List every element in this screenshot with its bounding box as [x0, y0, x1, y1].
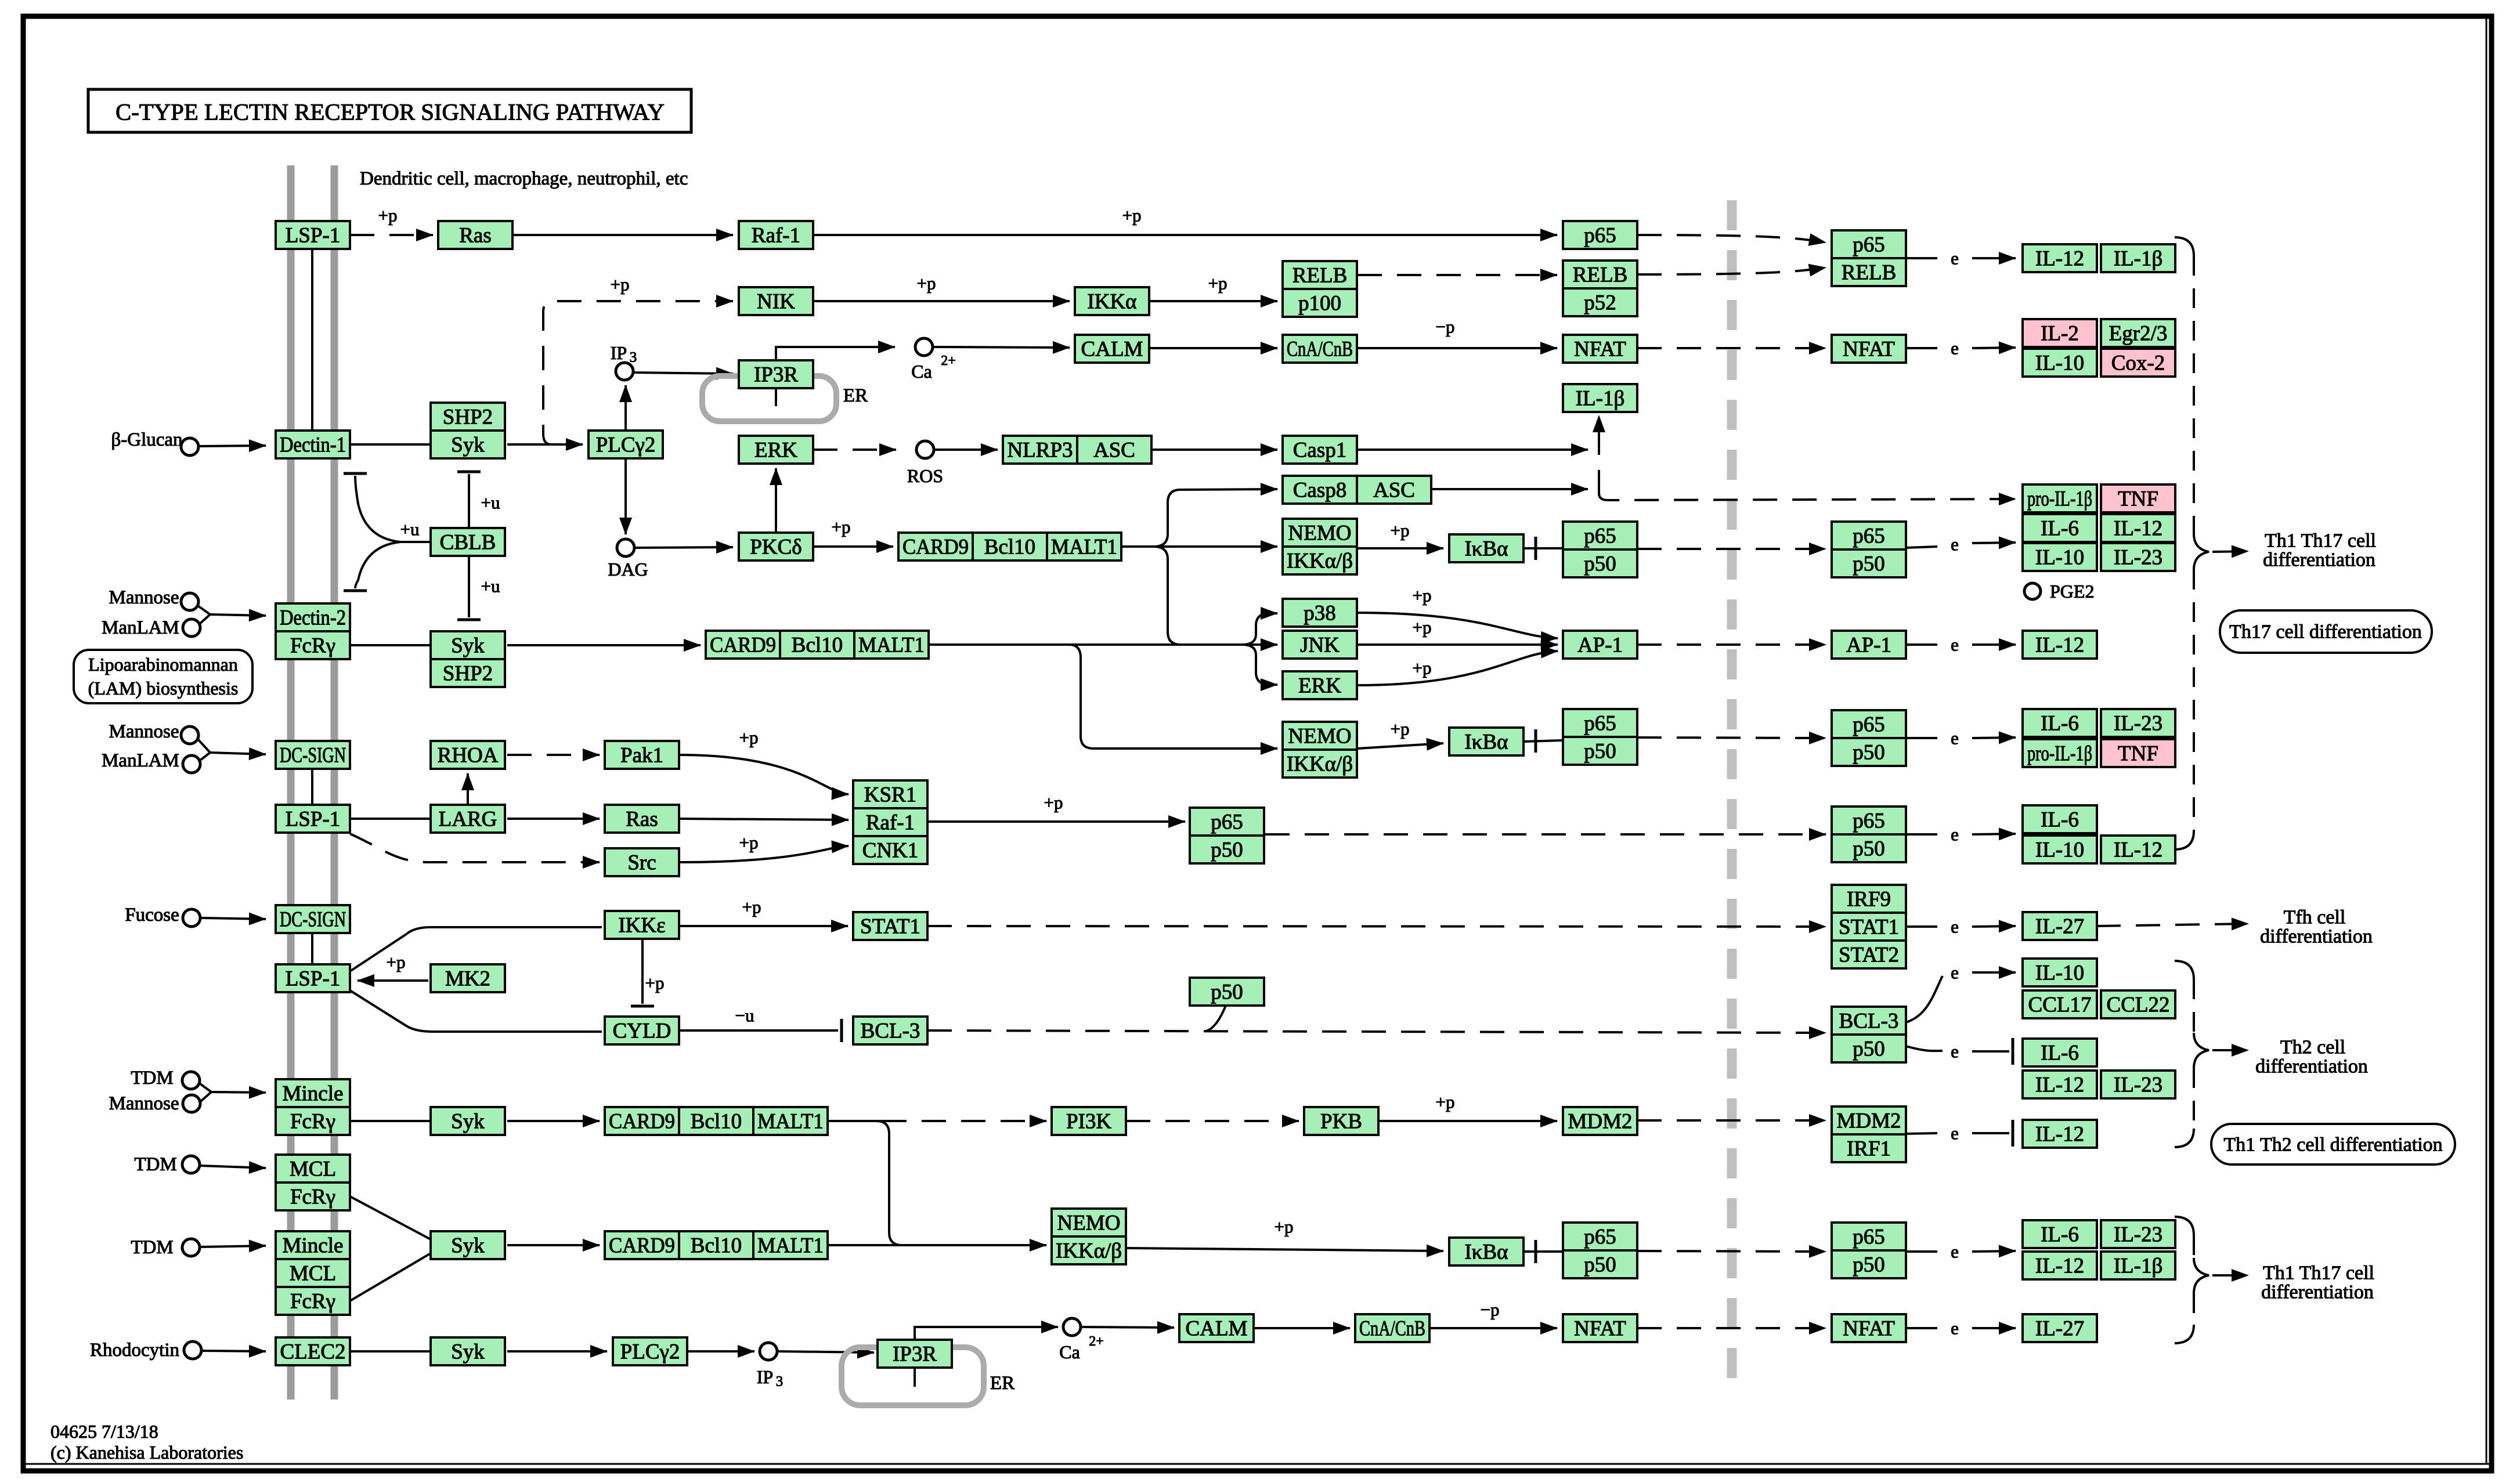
svg-text:p65: p65: [1853, 233, 1885, 257]
wire MALT1 r1 out: [1121, 545, 1154, 548]
wire LSP-1b to LARG: [350, 818, 429, 820]
wire e to IL-27: [1972, 926, 2016, 927]
svg-text:Mannose: Mannose: [109, 587, 179, 608]
svg-text:CALM: CALM: [1081, 338, 1143, 361]
svg-text:IL-12: IL-12: [2035, 1254, 2084, 1278]
svg-text:BCL-3: BCL-3: [861, 1019, 920, 1043]
wire IP3b to IP3R b: [778, 1351, 874, 1353]
wire e to cytokines F: [1972, 834, 2016, 834]
wire n0 to e: [1906, 257, 1937, 259]
wire PKB to MDM2: [1378, 1120, 1557, 1122]
svg-text:IL-10: IL-10: [2035, 546, 2084, 570]
box FcRγ b: [276, 1107, 350, 1135]
box IKKα/β 2: [1283, 750, 1357, 778]
svg-text:IL-6: IL-6: [2041, 517, 2079, 541]
box ERK a: [739, 436, 813, 464]
wire Casp8 to junction: [1431, 488, 1588, 490]
wire CnA/CnB b to NFAT c: [1431, 1327, 1557, 1329]
svg-text:Dectin-2: Dectin-2: [280, 606, 346, 630]
box RELB c: [1283, 261, 1357, 289]
wire n5 to e: [1906, 1250, 1937, 1253]
tee IKKε-CYLD: [631, 1005, 654, 1008]
wire AP-1n to e: [1906, 643, 1937, 646]
box Syk c: [431, 1107, 505, 1135]
wire p65/p50 1 to nucleus: [1637, 548, 1826, 550]
box p65 n2: [1832, 710, 1906, 738]
box Bcl10 r2: [780, 631, 854, 659]
wire NIK to IKKα: [813, 300, 1070, 302]
box STAT1 a: [853, 912, 927, 940]
svg-text:CARD9: CARD9: [710, 634, 776, 657]
wire IKKε to STAT1: [679, 925, 848, 927]
box IL-1β a: [2101, 244, 2175, 272]
svg-text:IκBα: IκBα: [1464, 731, 1508, 754]
svg-text:+p: +p: [1275, 1217, 1294, 1237]
wire IP3R b channel tick: [914, 1368, 916, 1387]
svg-text:p100: p100: [1298, 292, 1341, 316]
svg-text:ASC: ASC: [1373, 479, 1415, 502]
box CnA/CnB b: [1355, 1314, 1429, 1342]
wire DAG to PKCδ: [635, 547, 733, 548]
svg-text:Ca: Ca: [911, 361, 932, 382]
box pro-IL-1β c1: [2023, 484, 2097, 512]
box Syk d: [431, 1231, 505, 1259]
svg-text:+p: +p: [739, 833, 759, 853]
box MCL b: [276, 1259, 350, 1287]
svg-text:Mincle: Mincle: [283, 1234, 344, 1258]
tee MDM2 IL-12: [2012, 1120, 2014, 1147]
svg-text:Ca: Ca: [1059, 1341, 1080, 1362]
wire Src to CNK1: [679, 846, 849, 862]
svg-text:p38: p38: [1304, 602, 1336, 625]
box Cox-2: [2101, 349, 2175, 377]
svg-text:NFAT: NFAT: [1574, 338, 1626, 361]
svg-text:C-TYPE LECTIN RECEPTOR SIGN: C-TYPE LECTIN RECEPTOR SIGNALING PATHWAY: [115, 99, 665, 125]
svg-text:2+: 2+: [1089, 1334, 1104, 1349]
svg-text:e: e: [1951, 728, 1959, 748]
node ManLAM a node: [183, 619, 200, 637]
wire Ca2+ to CALM: [933, 347, 1070, 348]
box LSP-1 receptor a: [276, 221, 350, 249]
svg-text:IL-6: IL-6: [2041, 712, 2079, 736]
wire Raf-1 to p65: [813, 234, 1557, 236]
svg-text:Dectin-1: Dectin-1: [280, 433, 346, 457]
svg-text:2+: 2+: [941, 353, 956, 368]
svg-text:TDM: TDM: [134, 1154, 176, 1175]
box IKKα/β 1: [1283, 547, 1357, 574]
svg-text:Th2 cell: Th2 cell: [2280, 1037, 2345, 1058]
svg-text:+p: +p: [1044, 793, 1063, 813]
wire CBLB to Syk inhibit: [468, 474, 470, 528]
svg-text:NIK: NIK: [757, 290, 795, 314]
svg-text:e: e: [1951, 917, 1959, 937]
wire FcRγb to Syk c: [350, 1120, 429, 1122]
svg-text:IL-12: IL-12: [2114, 517, 2162, 541]
wire LARG to Ras b: [507, 818, 600, 820]
wire IκBα1 to p65: [1523, 547, 1562, 549]
box KSR1: [853, 780, 927, 808]
wire AP-1 to nucleus: [1637, 643, 1826, 646]
svg-text:ERK: ERK: [1298, 674, 1341, 698]
svg-text:ER: ER: [843, 385, 868, 406]
svg-text:Syk: Syk: [451, 634, 485, 658]
wire IP3R channel tick: [775, 388, 777, 406]
svg-text:+p: +p: [832, 517, 851, 537]
svg-text:CARD9: CARD9: [609, 1110, 675, 1134]
ER organelle b: [842, 1347, 984, 1405]
svg-text:Lipoarabinomannan: Lipoarabinomannan: [88, 654, 238, 675]
svg-text:+p: +p: [742, 897, 761, 917]
box p50 floater: [1190, 978, 1264, 1006]
box IKKα: [1075, 287, 1149, 315]
svg-text:IL-12: IL-12: [2035, 1123, 2084, 1147]
wire TDM to Mincle b: [200, 1246, 266, 1247]
box IL-6 h: [2023, 1039, 2097, 1066]
svg-text:CCL22: CCL22: [2107, 993, 2170, 1017]
svg-text:IL-12: IL-12: [2114, 838, 2162, 862]
svg-text:+p: +p: [1413, 658, 1432, 678]
wire PI3K to PKB dashed: [1126, 1120, 1299, 1122]
node IP3 node: [616, 363, 633, 380]
box LARG: [431, 805, 505, 833]
wire DC-SIGNa to LSP-1b: [311, 769, 313, 805]
svg-text:IL-23: IL-23: [2114, 712, 2162, 736]
svg-text:Bcl10: Bcl10: [691, 1234, 742, 1258]
wire junction up to IL-1β: [1598, 415, 1600, 494]
box IL-12 d: [2023, 631, 2097, 659]
svg-text:+p: +p: [387, 952, 406, 972]
wire to Mincle: [211, 1092, 266, 1093]
svg-text:LSP-1: LSP-1: [286, 967, 341, 991]
svg-text:p65: p65: [1584, 712, 1616, 736]
svg-text:RELB: RELB: [1293, 264, 1348, 288]
svg-text:β-Glucan: β-Glucan: [111, 429, 182, 450]
svg-text:CnA/CnB: CnA/CnB: [1287, 338, 1353, 361]
box IL-10 b: [2023, 349, 2097, 377]
wire Pak1 to KSR1: [679, 755, 849, 794]
wire brace3 arrow: [2212, 1274, 2248, 1277]
box BCL-3 a: [853, 1017, 927, 1044]
svg-text:MCL: MCL: [290, 1262, 336, 1286]
wire STAT1 to nucleus: [927, 926, 1826, 927]
box IκBα 3: [1449, 1238, 1523, 1265]
tee CBLB-Dectin-1: [344, 472, 367, 475]
wire fork to p38: [1242, 613, 1277, 645]
wire Ras to Raf-1: [512, 234, 733, 236]
node Fucose node: [183, 909, 200, 927]
box CCL17: [2023, 990, 2097, 1018]
svg-text:p65: p65: [1853, 713, 1885, 737]
wire Syk b to CARD9 r2: [507, 644, 701, 646]
svg-text:+p: +p: [1391, 719, 1410, 739]
box CBLB: [431, 528, 505, 556]
svg-text:Th1 Th17 cell: Th1 Th17 cell: [2263, 1263, 2374, 1284]
svg-text:IL-10: IL-10: [2035, 961, 2084, 985]
wire MDM2 to nucleus: [1637, 1119, 1826, 1122]
svg-text:+p: +p: [1391, 520, 1410, 541]
box IL-12 a: [2023, 244, 2097, 272]
svg-text:PLCγ2: PLCγ2: [596, 433, 656, 457]
svg-text:TDM: TDM: [131, 1068, 173, 1089]
box ERK b: [1283, 671, 1357, 699]
wire Syk e to PLCγ2 b: [507, 1350, 607, 1353]
wire Ras b to Raf-1 b: [679, 819, 849, 820]
wire CLEC2 to Syk e: [350, 1350, 429, 1353]
svg-text:Syk: Syk: [451, 1340, 485, 1364]
box IL-6 c1: [2023, 514, 2097, 542]
svg-text:FcRγ: FcRγ: [290, 1185, 335, 1209]
svg-text:IL-23: IL-23: [2114, 546, 2162, 570]
box pro-IL-1β e: [2023, 739, 2097, 767]
svg-text:Syk: Syk: [451, 1110, 485, 1134]
wire n2 to e: [1906, 737, 1937, 739]
svg-text:Tfh cell: Tfh cell: [2284, 907, 2346, 928]
box Syk e: [431, 1337, 505, 1365]
box STAT2: [1832, 941, 1906, 968]
svg-text:Raf-1: Raf-1: [752, 224, 800, 248]
box Casp8: [1283, 476, 1357, 504]
svg-text:p50: p50: [1584, 1253, 1616, 1277]
svg-text:MK2: MK2: [445, 967, 490, 991]
wire junction to pro-IL-1β dashed: [1599, 493, 2016, 500]
svg-text:p65: p65: [1584, 525, 1616, 548]
svg-text:Fucose: Fucose: [125, 905, 179, 925]
svg-text:differentiation: differentiation: [2263, 549, 2375, 571]
box FcRγ c: [276, 1183, 350, 1210]
svg-text:CALM: CALM: [1186, 1317, 1248, 1341]
svg-text:+p: +p: [645, 973, 665, 993]
wire to DC-SIGN: [210, 753, 266, 754]
box Syk b: [431, 631, 505, 659]
box MK2: [431, 964, 505, 992]
svg-text:p50: p50: [1853, 1253, 1885, 1277]
box AP-1 c: [1563, 631, 1637, 659]
svg-text:STAT1: STAT1: [1839, 916, 1899, 939]
svg-text:Mincle: Mincle: [283, 1082, 344, 1106]
box p65 c3: [1190, 808, 1264, 836]
tee IκBα2: [1535, 729, 1537, 753]
node TDM b node: [182, 1156, 200, 1173]
Th17 map box: [2220, 610, 2432, 653]
wire Dectin-1 to Syk: [350, 443, 429, 446]
box JNK: [1283, 631, 1357, 659]
wire CALM to CnA/CnB: [1150, 347, 1277, 349]
wire PKCδ to ERK: [775, 468, 777, 533]
box Raf-1 b: [853, 808, 927, 836]
box PKB: [1304, 1107, 1378, 1135]
wire PLCγ2 to DAG: [624, 458, 627, 534]
box CARD9 r4: [605, 1231, 679, 1259]
svg-text:AP-1: AP-1: [1577, 634, 1623, 657]
box p65 c1: [1563, 522, 1637, 549]
wire CBLB left stub: [400, 541, 431, 543]
svg-text:ERK: ERK: [754, 439, 797, 462]
wire Raf-1b to p65 3: [927, 820, 1185, 823]
box CARD9 r1: [898, 533, 973, 560]
plasma membrane bar 1: [287, 165, 295, 1400]
box Egr2/3: [2101, 319, 2175, 347]
svg-text:MALT1: MALT1: [1051, 536, 1117, 559]
box MALT1 r4: [753, 1231, 828, 1259]
wire DC-SIGNb to LSP-1c: [311, 933, 313, 964]
svg-text:Rhodocytin: Rhodocytin: [90, 1340, 179, 1361]
wire NEMO3 to IκBα3: [1126, 1248, 1443, 1251]
svg-text:CCL17: CCL17: [2028, 993, 2092, 1017]
svg-text:+p: +p: [611, 274, 630, 295]
svg-text:TDM: TDM: [131, 1237, 173, 1258]
svg-text:IL-6: IL-6: [2041, 1223, 2079, 1247]
svg-text:p50: p50: [1853, 837, 1885, 861]
svg-text:e: e: [1951, 963, 1959, 983]
wire brace1 arrow: [2212, 551, 2248, 552]
brace Th1 Th17 top: [2175, 237, 2209, 849]
box LSP-1 receptor b: [276, 805, 350, 833]
wire fork to NEMO1: [1154, 545, 1277, 548]
svg-text:NFAT: NFAT: [1574, 1317, 1626, 1341]
box RELB c2: [1563, 261, 1637, 288]
box Ras a: [438, 221, 512, 249]
svg-text:IKKα/β: IKKα/β: [1287, 753, 1353, 776]
svg-text:+p: +p: [1122, 205, 1142, 226]
wire e to cytokines C: [1972, 543, 2016, 543]
box IKKα/β 3: [1052, 1236, 1126, 1264]
svg-text:PLCγ2: PLCγ2: [620, 1340, 680, 1364]
svg-text:ManLAM: ManLAM: [102, 617, 179, 638]
wire IκBα2 to p65: [1523, 740, 1562, 742]
svg-text:Syk: Syk: [451, 1234, 485, 1258]
box Bcl10 r3: [679, 1107, 753, 1135]
wire p50 to BCL-3 line: [1206, 1006, 1226, 1031]
wire n3 to e: [1906, 833, 1937, 836]
wire n1 to e: [1906, 547, 1937, 548]
svg-text:IL-23: IL-23: [2114, 1223, 2162, 1247]
box LSP-1 receptor c: [276, 964, 350, 992]
svg-text:−p: −p: [1436, 317, 1455, 337]
box IL-6 j: [2023, 1220, 2097, 1248]
wire LSP-1 to Ras dashed: [350, 234, 433, 236]
wire LSP-1c to CYLD: [350, 990, 602, 1032]
box p50 n5: [1832, 1250, 1906, 1278]
box Bcl10 r1: [973, 533, 1047, 560]
box p65 n1: [1832, 522, 1906, 549]
svg-text:NEMO: NEMO: [1057, 1212, 1121, 1235]
svg-text:CARD9: CARD9: [902, 536, 969, 559]
wire PLCγ2 to IP3: [624, 385, 627, 431]
wire MALT1 r3 out: [828, 1120, 882, 1122]
box p100: [1283, 289, 1357, 317]
svg-text:3: 3: [630, 350, 637, 366]
wire Fucose to DC-SIGN b: [201, 918, 266, 919]
wire CBLB to Dectin-2 inhibit: [355, 542, 400, 588]
svg-text:p65: p65: [1853, 809, 1885, 833]
box IRF1: [1832, 1134, 1906, 1162]
svg-text:BCL-3: BCL-3: [1839, 1010, 1899, 1033]
wire IP3R b to Ca2+ b: [915, 1327, 1058, 1340]
svg-text:RHOA: RHOA: [438, 744, 499, 768]
svg-text:pro-IL-1β: pro-IL-1β: [2027, 742, 2092, 766]
tee IκBα3: [1535, 1240, 1537, 1263]
wire LSP-1c to IKKε: [350, 927, 602, 971]
wire p65/p50 4 to nucleus: [1637, 1251, 1826, 1252]
svg-text:LARG: LARG: [439, 808, 497, 831]
box Dectin-1: [276, 431, 350, 458]
svg-text:Syk: Syk: [451, 433, 485, 457]
svg-text:e: e: [1951, 1242, 1959, 1262]
wire ERK2 to AP-1: [1358, 651, 1558, 685]
box CALM a: [1075, 335, 1149, 363]
svg-text:IP3R: IP3R: [893, 1343, 937, 1366]
wire branch to NEMO2: [1071, 645, 1277, 748]
svg-text:differentiation: differentiation: [2260, 926, 2373, 948]
svg-text:FcRγ: FcRγ: [290, 1290, 335, 1314]
wire RELB/p100 to RELB/p52: [1358, 274, 1557, 276]
box IL-10 c1: [2023, 543, 2097, 571]
wire fork to JNK: [1242, 643, 1277, 646]
svg-text:LSP-1: LSP-1: [286, 808, 341, 831]
tee CBLB-Sykb: [457, 619, 481, 621]
svg-text:p65: p65: [1853, 525, 1885, 548]
svg-text:STAT1: STAT1: [860, 915, 920, 939]
wire p65/p50 3 to nucleus: [1265, 833, 1826, 836]
wire p38 to AP-1: [1358, 613, 1558, 638]
box IL-23 c1: [2101, 543, 2175, 571]
svg-text:IRF9: IRF9: [1847, 888, 1891, 912]
wire ligand merge Mincle: [200, 1084, 211, 1101]
svg-text:−u: −u: [735, 1006, 754, 1026]
wire MALT1 r4 to NEMO3: [828, 1244, 1046, 1246]
svg-text:+p: +p: [739, 728, 759, 748]
svg-text:MALT1: MALT1: [858, 634, 925, 657]
wire MK2 to LSP-1c: [358, 979, 428, 982]
svg-text:Src: Src: [627, 851, 656, 875]
svg-text:IL-27: IL-27: [2035, 1317, 2084, 1341]
svg-text:Th17 cell differentiation: Th17 cell differentiation: [2229, 621, 2422, 643]
box MALT1 r2: [854, 631, 929, 659]
brace Th1 Th17 bottom: [2175, 1217, 2209, 1343]
wire e to cytokines E: [1972, 737, 2016, 738]
node Ca2+ node: [915, 338, 933, 356]
box IκBα 1: [1449, 534, 1523, 562]
svg-text:IL-6: IL-6: [2041, 1042, 2079, 1065]
LAM biosynthesis map box: [74, 650, 252, 703]
node Mannose c node: [183, 1095, 200, 1112]
svg-text:JNK: JNK: [1300, 634, 1340, 657]
wire e to IL-27 b: [1972, 1327, 2016, 1329]
svg-text:NFAT: NFAT: [1843, 338, 1895, 361]
box Dectin-2: [276, 603, 350, 631]
wire fork to ERK2: [1242, 645, 1277, 685]
wire Syk c to CARD9 r3: [507, 1120, 600, 1122]
svg-text:Raf-1: Raf-1: [866, 811, 915, 835]
box IL-6 e: [2023, 709, 2097, 737]
svg-text:IL-2: IL-2: [2041, 322, 2079, 346]
box Pak1: [605, 741, 679, 769]
wire JNK to AP-1: [1358, 643, 1558, 646]
box NLRP3: [1003, 436, 1077, 464]
svg-text:Ras: Ras: [626, 808, 658, 831]
svg-text:TNF: TNF: [2118, 742, 2158, 766]
title box: [88, 89, 691, 132]
box NIK: [739, 287, 813, 315]
plasma membrane bar 2: [331, 165, 338, 1400]
wire NEMO1 to IκBα1: [1358, 547, 1443, 549]
node β-Glucan node: [181, 438, 198, 455]
box DC-SIGN a: [276, 741, 350, 769]
wire IL-27 to Tfh: [2096, 924, 2248, 926]
svg-text:Bcl10: Bcl10: [691, 1110, 742, 1134]
box IL-1β intermediate: [1563, 384, 1637, 412]
wire BCL-3 branch down: [1906, 1046, 1943, 1051]
